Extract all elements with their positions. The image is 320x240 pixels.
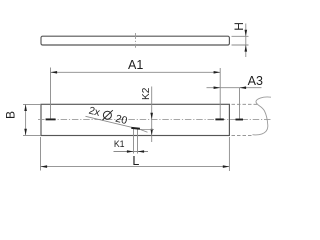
- svg-text:K1: K1: [114, 139, 125, 149]
- svg-text:B: B: [4, 111, 18, 119]
- svg-text:K2: K2: [141, 87, 152, 100]
- svg-text:A1: A1: [128, 58, 143, 72]
- svg-text:L: L: [132, 154, 139, 168]
- svg-text:A3: A3: [248, 74, 263, 88]
- svg-text:H: H: [232, 22, 246, 31]
